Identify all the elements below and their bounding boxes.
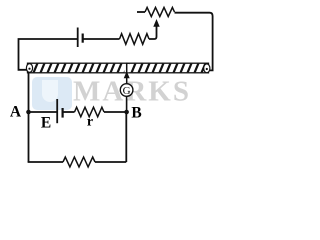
svg-text:G: G bbox=[123, 85, 131, 97]
wire left vertical: bar left end down through A to bottom corner bbox=[28, 73, 30, 163]
resistor R1 bbox=[120, 34, 150, 45]
jockey contact arrow on bar bbox=[124, 63, 130, 85]
wire top-left from bar left end up and right to battery bbox=[19, 39, 78, 70]
wire r to node B bbox=[104, 111, 127, 113]
wire bottom left segment bbox=[28, 161, 63, 163]
wire R1 to rheostat wiper bbox=[149, 27, 157, 40]
wire bottom right segment bbox=[95, 161, 126, 163]
wire cell to resistor r bbox=[63, 111, 75, 113]
wire B down right side to bottom bbox=[125, 112, 127, 162]
svg-text:A: A bbox=[10, 104, 22, 121]
potentiometer wire AB (hatched bar) bbox=[26, 62, 210, 74]
cell E bbox=[57, 99, 62, 123]
resistor R2 (bottom) bbox=[63, 157, 95, 167]
svg-text:E: E bbox=[41, 115, 51, 132]
wire A to cell E bbox=[29, 111, 58, 113]
resistor r bbox=[75, 107, 105, 117]
wire rheostat right end down to bar right end bbox=[175, 13, 213, 71]
rheostat Rh wiper arrow bbox=[153, 19, 159, 27]
battery B1 (driver cell) bbox=[78, 28, 83, 48]
svg-text:r: r bbox=[87, 115, 93, 130]
rheostat Rh bbox=[137, 7, 175, 16]
galvanometer G bbox=[120, 84, 133, 97]
wire G to node B bbox=[126, 96, 128, 112]
watermark logo bbox=[32, 77, 72, 110]
wire battery to resistor R1 bbox=[83, 38, 120, 40]
node B bbox=[124, 110, 129, 115]
svg-text:B: B bbox=[131, 105, 141, 122]
node A bbox=[26, 110, 31, 115]
